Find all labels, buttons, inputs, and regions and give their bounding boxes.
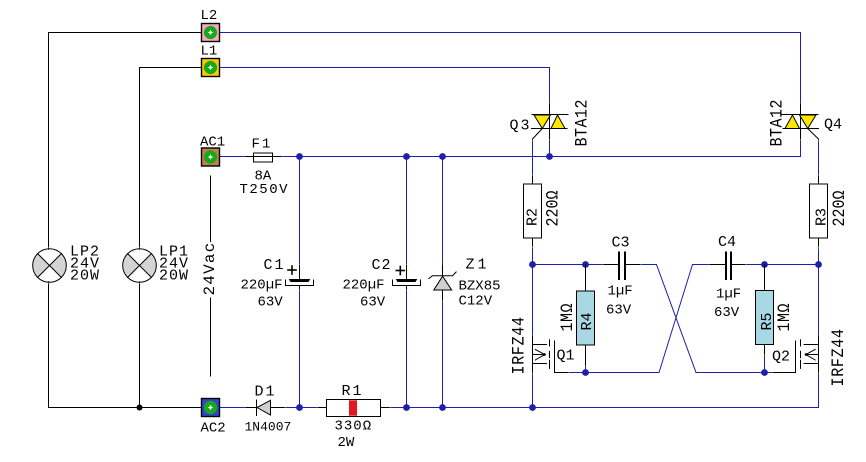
svg-text:220µF: 220µF (241, 278, 283, 294)
svg-text:C2: C2 (372, 257, 392, 274)
wire C3 row left segment (533, 264, 604, 266)
svg-text:24Vac: 24Vac (201, 241, 219, 295)
pin tick LP2 bottom (48, 282, 50, 284)
svg-text:2W: 2W (338, 435, 355, 451)
pin tick R4 top (585, 266, 587, 268)
pin tick R1 left (317, 407, 319, 409)
wire Q2 gate row horizontal from diagonal to R5 junction (696, 372, 765, 374)
pin tick Q2 gate (772, 372, 774, 374)
wire bottom bus D1 to R1 (300, 407, 319, 409)
wire triac Q3 gate down to R2 (532, 140, 534, 177)
node junction LP1/AC2 bus (black dot) (137, 405, 143, 411)
svg-text:R1: R1 (342, 383, 364, 400)
svg-text:BTA12: BTA12 (768, 99, 787, 146)
pin tick R3 top (818, 175, 820, 177)
svg-text:L2: L2 (201, 8, 218, 24)
GREENTICKS (49, 103, 819, 408)
pin tick C4 right (744, 264, 746, 266)
node junction AC1 bus / Z1 branch (439, 153, 446, 160)
svg-text:330Ω: 330Ω (335, 419, 373, 435)
pin tick C4 left (709, 264, 711, 266)
wire Z1 branch upper (442, 157, 444, 265)
svg-text:F1: F1 (252, 137, 273, 153)
node junction AC1 bus / C2 branch (403, 153, 410, 160)
wire C3 right to diagonal start (640, 264, 657, 266)
wire Q1 gate row to diagonal start (568, 372, 659, 374)
wire 24Vac dashed link AC1-AC2 lower segment (210, 298, 212, 376)
fuse F1 (246, 153, 281, 162)
svg-text:20W: 20W (70, 268, 100, 285)
pin tick R5 bottom (764, 354, 766, 356)
wire diagonal Q1 gate row to C4 row (659, 265, 693, 373)
svg-text:D1: D1 (255, 384, 277, 401)
pin tick Q1 source (532, 372, 534, 374)
wire triac Q3 T1 to AC1 bus (549, 139, 551, 157)
wire net L1: terminal L1 to triac Q3 T2 (219, 68, 550, 104)
wire diode D1 to C1 branch junction (285, 407, 300, 409)
svg-text:20W: 20W (159, 268, 189, 285)
resistor R5 1M (756, 265, 774, 355)
pin tick Z1 top (442, 264, 444, 266)
wire C4 row left segment (693, 264, 710, 266)
pin tick R1 right (389, 407, 391, 409)
wire R2 bottom to C3 row junction (532, 247, 534, 265)
pin tick Q3 T1 (549, 138, 551, 140)
lamp LP2 (33, 249, 67, 283)
pin tick Q1 gate (567, 372, 569, 374)
pin tick LP2 top (48, 248, 50, 250)
wire net AC1: fuse F1 to triac T1 bus, rises to Q4 T1 (281, 139, 801, 157)
node junction bottom bus / C2 branch (403, 404, 410, 411)
pin tick C3 right (639, 264, 641, 266)
svg-text:C3: C3 (612, 235, 630, 252)
svg-text:Q3: Q3 (510, 118, 532, 135)
wire C1 branch upper (299, 157, 301, 265)
svg-text:63V: 63V (360, 295, 386, 311)
wire L2 terminal to lamp LP2 (net N$L2 left run) (49, 33, 202, 249)
diode D1 1N4007 (246, 400, 284, 416)
resistor R4 1M (577, 265, 595, 366)
pin tick C1 bottom (299, 289, 301, 291)
wire 24Vac dashed link AC1-AC2 upper segment (210, 176, 212, 242)
wire bottom bus right span (390, 407, 819, 409)
capacitor C4 1uF (710, 252, 745, 281)
svg-text:R2: R2 (525, 208, 542, 226)
wire right rail C4 row to Q2 drain (818, 265, 820, 336)
wire lamp LP2 bottom to AC2 bus (49, 283, 202, 408)
mosfet Q2 IRFZ44 (774, 336, 819, 373)
svg-text:220Ω: 220Ω (542, 190, 563, 226)
capacitor C3 1uF (604, 252, 640, 281)
node junction C3 row / R2 rail (529, 261, 536, 268)
pin tick R5 top (764, 266, 766, 268)
wire net L2: terminal L2 to triac Q4 T2 (219, 33, 801, 104)
pin tick C3 left (603, 264, 605, 266)
pin tick LP1 bottom (139, 282, 141, 284)
svg-text:BZX85: BZX85 (459, 279, 501, 295)
svg-text:L1: L1 (201, 44, 218, 60)
node junction C3 row / R4 top (582, 261, 589, 268)
node junction Q2 gate row / R5 bottom (761, 369, 768, 376)
pin tick Q1 drain (532, 335, 534, 337)
WIRES-BLACK (49, 33, 211, 411)
svg-text:1µF: 1µF (716, 287, 741, 303)
resistor R2 220R (524, 177, 542, 246)
wire R4 bottom blue stub (585, 366, 587, 373)
svg-text:Q4: Q4 (824, 117, 842, 134)
mosfet Q1 IRFZ44 (533, 336, 568, 373)
pin tick Q2 drain (818, 335, 820, 337)
terminal AC1 (202, 148, 220, 166)
wire diagonal C3 row to Q2 gate row (657, 265, 697, 373)
wire net AC1: terminal AC1 to fuse F1 (220, 156, 246, 158)
resistor R1 330R 2W (319, 400, 390, 417)
svg-text:63V: 63V (714, 305, 740, 321)
wire C1 branch lower (299, 290, 301, 408)
pin tick R2 top (532, 175, 534, 177)
svg-text:IRFZ44: IRFZ44 (828, 328, 849, 386)
terminal L1 (202, 59, 220, 77)
pin tick R4 bottom (585, 365, 587, 367)
wire R5 bottom blue stub (764, 355, 766, 373)
wire Z1 branch lower (442, 301, 444, 408)
svg-text:Z1: Z1 (466, 257, 490, 274)
pin tick F1 left (245, 156, 247, 158)
svg-text:220Ω: 220Ω (829, 190, 850, 226)
triac Q3 BTA12 (532, 104, 569, 139)
WIRES-BLUE (219, 33, 819, 408)
pin tick Q4 gate (818, 139, 820, 141)
svg-text:BTA12: BTA12 (573, 99, 592, 146)
svg-text:1MΩ: 1MΩ (557, 303, 578, 331)
svg-text:1N4007: 1N4007 (245, 420, 292, 435)
lamp LP1 (123, 249, 157, 283)
zener diode Z1 BZX85-C12 (429, 265, 456, 300)
wire Q4 gate down to R3 (818, 140, 820, 176)
pin tick Z1 bottom (442, 300, 444, 302)
capacitor C1 220uF polarized (286, 266, 314, 290)
wire Q2 gate bottom blue stub (765, 372, 774, 374)
svg-text:C12V: C12V (459, 294, 493, 310)
pin tick C1 top (299, 265, 301, 267)
svg-text:1MΩ: 1MΩ (774, 303, 795, 331)
svg-text:63V: 63V (258, 295, 284, 311)
terminal L2 (202, 24, 220, 42)
pin tick Q4 T2 (800, 103, 802, 105)
pin tick R2 bottom (532, 246, 534, 248)
wire C2 branch lower (406, 290, 408, 408)
svg-text:220µF: 220µF (343, 278, 385, 294)
pin tick C2 top (406, 265, 408, 267)
wire L1 terminal to lamp LP1 (140, 68, 202, 249)
pin tick Q2 source (818, 372, 820, 374)
wire terminal AC2 to diode D1 (220, 407, 246, 409)
pin tick LP1 top (139, 248, 141, 250)
node junction Q1 gate row / R4 bottom (582, 369, 589, 376)
wire lamp LP1 bottom to AC2 bus (139, 283, 141, 408)
svg-text:T250V: T250V (240, 182, 290, 198)
svg-text:Q1: Q1 (557, 348, 575, 365)
svg-text:IRFZ44: IRFZ44 (508, 316, 529, 374)
svg-text:1µF: 1µF (608, 284, 633, 300)
node junction bottom bus / Z1 branch (439, 404, 446, 411)
node junction bottom bus / C1 branch (296, 404, 303, 411)
svg-text:AC2: AC2 (201, 421, 226, 437)
pin tick C2 bottom (406, 289, 408, 291)
svg-text:R4: R4 (579, 312, 596, 330)
wire C2 branch upper (406, 157, 408, 265)
pin tick F1 right (280, 156, 282, 158)
wire Q1 source to bottom bus (532, 373, 534, 408)
pin tick R3 bottom (818, 247, 820, 249)
node junction bottom bus / Q1 source (529, 404, 536, 411)
pin tick Q3 T2 (549, 103, 551, 105)
wire Q1 drain rail from C3 row (532, 265, 534, 336)
svg-text:Q2: Q2 (772, 349, 790, 366)
svg-text:C4: C4 (718, 234, 736, 251)
pin tick D1 cathode (284, 407, 286, 409)
wire C4 right to R3 rail (745, 264, 819, 266)
wire Q2 source to bottom bus (818, 373, 820, 408)
svg-text:AC1: AC1 (200, 135, 225, 151)
resistor R3 220R (810, 177, 828, 246)
pin tick Q3 gate (532, 139, 534, 141)
terminal AC2 (202, 399, 220, 417)
node junction C4 row / R3 rail (815, 261, 822, 268)
node junction AC1 bus / Q3 T1 (546, 153, 553, 160)
node junction AC1 bus / C1 branch (296, 153, 303, 160)
triac Q4 BTA12 (782, 104, 819, 139)
capacitor C2 220uF polarized (393, 266, 421, 290)
pin tick Q4 T1 (800, 138, 802, 140)
svg-text:C1: C1 (264, 257, 286, 274)
pin tick D1 anode (245, 407, 247, 409)
node junction C4 row / R5 top (761, 261, 768, 268)
svg-text:63V: 63V (606, 303, 632, 319)
wire R3 bottom to C4 row junction (818, 248, 820, 265)
